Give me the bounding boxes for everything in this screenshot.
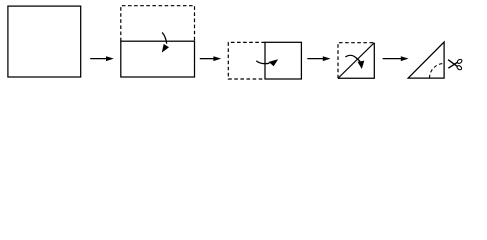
step2 dashed top half (folded part)	[121, 6, 195, 42]
arrow 1	[90, 56, 114, 61]
step5 folded triangle	[408, 42, 444, 78]
step5 dashed cut arc (quarter circle at corner)	[430, 63, 445, 78]
step2 solid bottom half	[121, 41, 195, 77]
step2 fold arrow (curved, folding down)	[162, 32, 169, 52]
step4 solid right+bottom edges	[338, 43, 374, 79]
step3 solid right half	[265, 42, 301, 79]
step4 diagonal fold line	[338, 43, 374, 79]
step3 fold arrow (curved, folding right)	[256, 59, 278, 66]
square step1	[8, 6, 81, 77]
scissors (pointing left)	[448, 59, 463, 71]
arrow 4	[383, 56, 409, 61]
step3 dashed left half (folded part)	[228, 42, 265, 79]
step4 fold arrow (curved, folding diagonally)	[345, 55, 364, 69]
step4 dashed top+left edges (folded part)	[338, 43, 374, 79]
arrow 3	[307, 56, 330, 61]
arrow 2	[200, 56, 221, 61]
